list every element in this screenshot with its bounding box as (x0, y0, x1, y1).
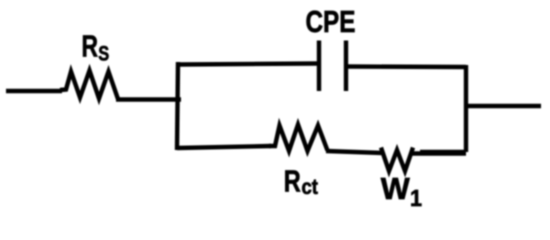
svg-text:S: S (98, 42, 109, 65)
svg-text:R: R (82, 29, 99, 64)
svg-text:ct: ct (302, 176, 319, 199)
svg-text:R: R (284, 164, 301, 199)
svg-text:1: 1 (410, 185, 422, 211)
svg-text:CPE: CPE (306, 4, 356, 39)
svg-text:W: W (381, 171, 411, 206)
